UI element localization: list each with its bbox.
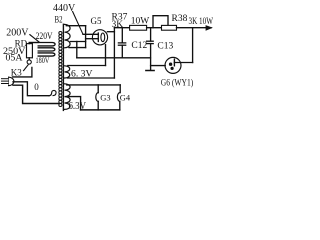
wire HV middle tap — [71, 41, 86, 43]
svg-text:200V: 200V — [6, 27, 29, 38]
wire junction vertical at x114.6 — [113, 28, 115, 78]
label R37 — [112, 13, 128, 23]
svg-text:3K 10W: 3K 10W — [189, 17, 214, 27]
transformer core — [62, 24, 64, 110]
label R38 — [172, 14, 188, 24]
leader line for 200V — [30, 35, 40, 43]
label K3 — [11, 67, 22, 77]
svg-text:K3: K3 — [11, 67, 22, 77]
label RD — [15, 39, 28, 49]
svg-text:R38: R38 — [172, 14, 188, 24]
label G6 (WY1) — [161, 77, 194, 87]
wire pin 1 of G5 — [83, 33, 98, 35]
wire heater vertical to G5 — [105, 45, 107, 66]
heater G3 — [96, 85, 98, 110]
wire vertical to ground bus — [76, 42, 78, 58]
wire HV bottom end lead — [69, 47, 86, 49]
svg-text:05A: 05A — [6, 53, 23, 63]
wire plug to 0 tap — [13, 82, 49, 96]
resistor R37 — [130, 25, 147, 30]
svg-text:C12: C12 — [131, 41, 147, 51]
primary tap loop 220V — [29, 43, 55, 46]
ground bus wire — [77, 57, 151, 59]
capacitor C12 — [118, 28, 125, 58]
wire plug to switch — [13, 67, 32, 77]
wire R37 to R38 — [147, 27, 162, 29]
label 05A — [6, 53, 23, 63]
wire HV top tap to node — [66, 25, 85, 27]
svg-text:6. 3V: 6. 3V — [71, 69, 93, 79]
heater winding 6.3V (G3 G4) of B2 — [65, 84, 71, 110]
wire heater winding bottom tap — [68, 77, 115, 79]
svg-text:180V: 180V — [36, 55, 50, 65]
label C12 — [131, 41, 147, 51]
label C13 — [157, 41, 173, 51]
svg-text:6.3V: 6.3V — [69, 101, 87, 112]
label 200V — [6, 27, 29, 38]
rectifier tube G5 — [92, 30, 107, 45]
svg-text:G3: G3 — [100, 93, 110, 103]
label 6.3V lower — [69, 101, 87, 112]
label 440V — [53, 3, 76, 14]
svg-text:3K: 3K — [112, 20, 124, 30]
output arrow — [206, 25, 213, 31]
label B2 — [55, 14, 63, 24]
svg-text:0: 0 — [34, 82, 39, 92]
label 3K (R37) — [112, 20, 124, 30]
label 250V — [3, 47, 26, 57]
HV secondary winding (440V) of B2 — [65, 24, 71, 47]
wire branch down to G6 — [192, 28, 194, 63]
resistor R38 — [162, 25, 177, 30]
svg-text:G4: G4 — [120, 93, 131, 103]
wire B+ rail to R37 — [114, 27, 129, 29]
wire fuse bottom lead — [28, 58, 30, 60]
wire R38 to output — [177, 27, 212, 29]
svg-text:220V: 220V — [36, 32, 53, 42]
primary tap loop 200V — [38, 48, 55, 51]
wire pin 2 of G5 — [86, 38, 99, 40]
wire heater box bottom tap — [68, 97, 80, 110]
capacitor C13 — [147, 28, 154, 71]
svg-text:G5: G5 — [91, 16, 102, 26]
label 180V — [36, 55, 50, 65]
wire fuse top lead — [29, 43, 38, 44]
label G4 — [120, 93, 131, 103]
wire G5 plate output — [107, 31, 114, 33]
AC plug — [2, 77, 14, 85]
label 6.3V upper — [71, 69, 93, 79]
svg-text:C13: C13 — [157, 41, 173, 51]
label 10W (R37) — [131, 16, 150, 26]
wire heater winding top tap — [68, 65, 106, 67]
primary tap loop 180V — [38, 53, 55, 56]
node C13 junction vertical with tap loop over R38 — [153, 16, 168, 28]
wire heater box bottom rail — [81, 109, 120, 111]
svg-text:10W: 10W — [131, 16, 150, 26]
heater G4 — [117, 85, 120, 110]
wire G6 cathode lead — [151, 65, 166, 67]
svg-text:G6 (WY1): G6 (WY1) — [161, 77, 194, 87]
0 tap terminal hook — [49, 90, 56, 95]
wire G6 anode lead — [174, 62, 192, 64]
label 220V — [36, 32, 53, 42]
label 3K 10W (R38) — [189, 17, 214, 27]
wire heater box top rail — [67, 84, 120, 86]
label 0 — [34, 82, 39, 92]
label G3 — [100, 93, 110, 103]
svg-text:B2: B2 — [55, 14, 63, 24]
wire vertical node line at x86 — [85, 26, 87, 48]
switch K3 contact — [27, 60, 31, 64]
fuse RD — [27, 44, 33, 58]
label G5 — [91, 16, 102, 26]
heater winding 6.3V (G5) of B2 — [65, 66, 70, 78]
ground bar — [146, 70, 154, 72]
leader line for 440V — [73, 12, 83, 35]
voltage stabilizer tube G6 (WY1) — [165, 57, 181, 73]
wire plug to winding bottom — [13, 85, 59, 103]
switch K3 blade — [24, 65, 29, 71]
primary winding of B2 (loop column) — [59, 31, 62, 106]
